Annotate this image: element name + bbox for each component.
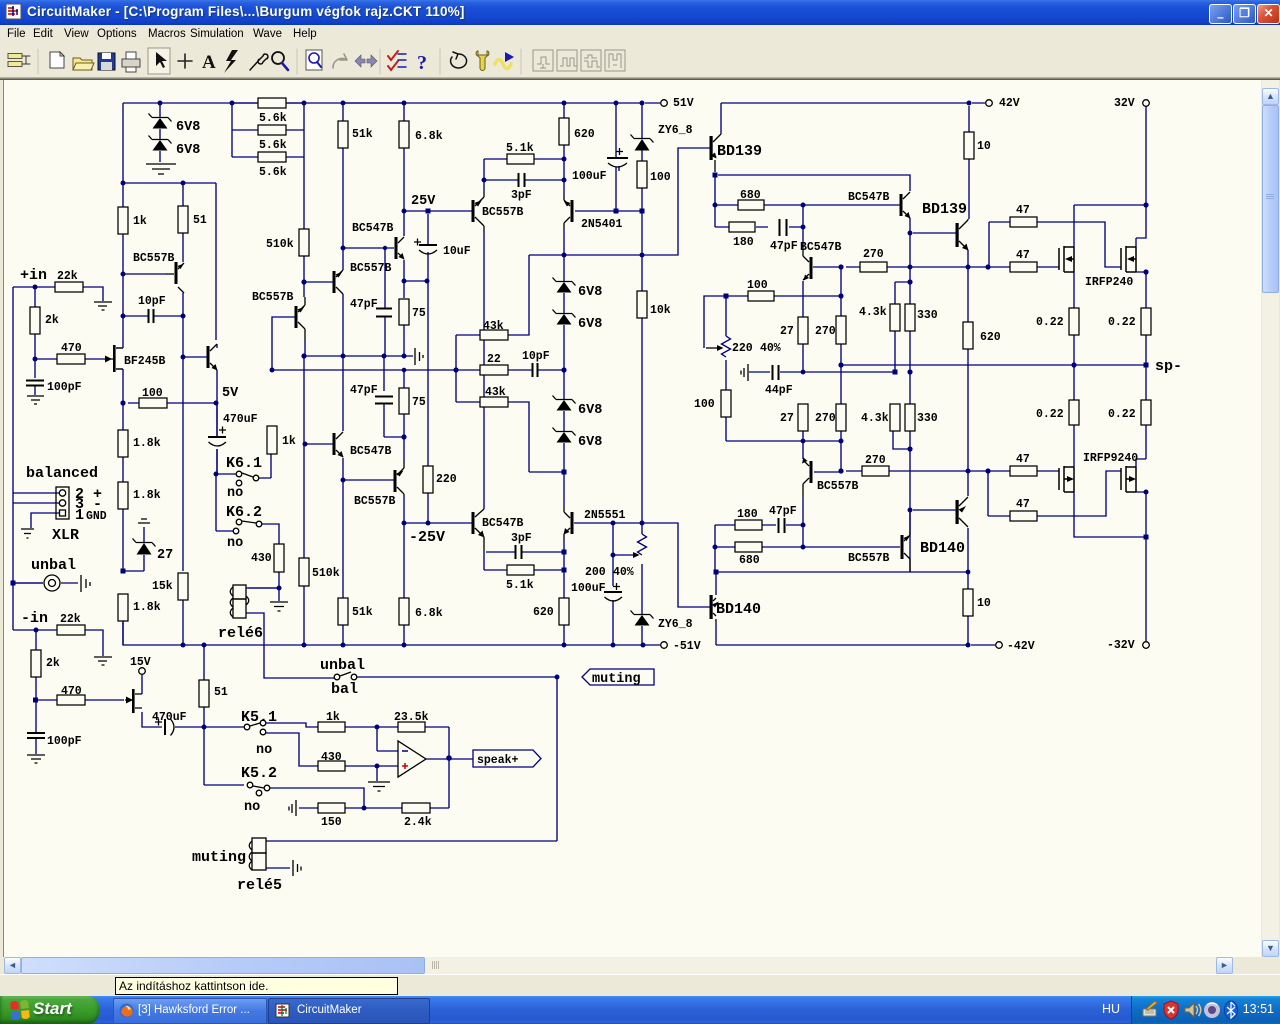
resistor 270 h2 xyxy=(862,466,889,476)
resistor 27 2 xyxy=(798,404,808,431)
zener ZY6_8 top xyxy=(631,135,654,143)
svg-text:27: 27 xyxy=(157,548,173,563)
capacitor 100uF 1 xyxy=(607,157,628,159)
svg-text:15V: 15V xyxy=(130,656,151,669)
svg-text:40%: 40% xyxy=(613,566,634,579)
transistor BC547B 1 (207,357) xyxy=(207,346,210,368)
svg-text:10: 10 xyxy=(977,597,991,610)
svg-text:BC557B: BC557B xyxy=(817,480,859,493)
capacitor 100uF 2 xyxy=(604,591,622,593)
resistor 15k xyxy=(178,573,188,600)
ground rele6 xyxy=(270,602,288,611)
resistor 270 v1 xyxy=(836,316,846,344)
svg-text:10pF: 10pF xyxy=(522,350,550,363)
svg-text:unbal: unbal xyxy=(320,657,365,674)
wire y267 bias row xyxy=(813,222,1121,267)
resistor 270 v2 xyxy=(836,404,846,431)
resistor 5.6k 3 xyxy=(258,152,286,162)
pot 200 40% xyxy=(638,534,647,555)
svg-text:no: no xyxy=(256,743,272,758)
svg-text:100pF: 100pF xyxy=(47,735,82,748)
resistor 0.22 a xyxy=(1069,308,1079,335)
terminal 42V xyxy=(986,100,993,107)
svg-text:510k: 510k xyxy=(312,567,340,580)
svg-text:5.6k: 5.6k xyxy=(259,112,287,125)
resistor 1.8k 1 xyxy=(118,430,128,457)
wire relay6 area xyxy=(246,588,557,868)
wire 1k K6.1 x272 xyxy=(271,426,273,454)
resistor 1k left xyxy=(118,207,128,234)
pot 220 40% xyxy=(722,336,731,357)
wire -in node x36 xyxy=(36,630,124,754)
resistor 0.22 c xyxy=(1069,400,1079,425)
svg-text:1.8k: 1.8k xyxy=(133,489,161,502)
resistor 470 bottom xyxy=(57,695,85,705)
wire 470uF1 column xyxy=(216,403,218,474)
svg-text:47pF: 47pF xyxy=(770,240,798,253)
transistor BC547B 2b (472,523) xyxy=(472,512,475,534)
wire x529 43k right xyxy=(508,255,564,472)
svg-text:6V8: 6V8 xyxy=(176,120,200,135)
transistor BC547B 2 (900,205) xyxy=(900,194,903,216)
resistor 2.4k xyxy=(402,803,430,813)
svg-text:BD140: BD140 xyxy=(920,540,965,557)
resistor 10 top xyxy=(964,132,974,159)
resistor 10k xyxy=(637,291,647,318)
svg-text:BC557B: BC557B xyxy=(482,206,524,219)
svg-text:unbal: unbal xyxy=(31,557,76,574)
wire opamp nodes xyxy=(377,727,473,808)
wire unbal jack xyxy=(15,582,78,584)
resistor 6.8k 2 xyxy=(399,598,409,625)
wire x484 LTP rail xyxy=(484,232,564,570)
resistor 180 2 xyxy=(735,520,762,530)
zener 6V8 c1 xyxy=(553,278,576,286)
terminal -51V xyxy=(661,642,668,649)
ground left of 44pF xyxy=(741,364,748,381)
svg-text:2N5401: 2N5401 xyxy=(581,218,623,231)
resistor 0.22 b xyxy=(1141,308,1151,335)
wire 5.6k column x232 xyxy=(232,103,304,157)
zener 6V8 c3 xyxy=(553,396,576,404)
mosfet IRFP240 1 xyxy=(1059,246,1074,272)
svg-text:270: 270 xyxy=(865,454,886,467)
svg-text:330: 330 xyxy=(917,309,938,322)
svg-text:-in: -in xyxy=(21,610,48,627)
transistor BC557B lower drv (810,472) xyxy=(810,461,813,483)
wire zener27 stem xyxy=(143,527,145,571)
resistor 620 2 xyxy=(559,598,569,625)
svg-text:XLR: XLR xyxy=(52,527,79,544)
ground right of unbal jack xyxy=(81,575,90,592)
svg-text:270: 270 xyxy=(815,325,836,338)
zener 6V8 b xyxy=(149,136,172,144)
svg-text:K6.1: K6.1 xyxy=(226,455,262,472)
resistor 1k op xyxy=(318,722,345,732)
svg-text:330: 330 xyxy=(917,412,938,425)
svg-text:muting: muting xyxy=(592,672,641,687)
svg-text:100uF: 100uF xyxy=(571,582,606,595)
ground under 22k bottom xyxy=(94,657,112,665)
wire BD140-2 base xyxy=(910,510,956,530)
wire A rail y356 xyxy=(304,355,413,357)
wire x803 27 column xyxy=(802,281,804,547)
svg-text:10uF: 10uF xyxy=(443,245,471,258)
resistor 430 op xyxy=(318,761,345,771)
resistor 680 2 xyxy=(735,542,762,552)
svg-text:270: 270 xyxy=(863,248,884,261)
resistor 2k top xyxy=(30,307,40,334)
svg-text:2.4k: 2.4k xyxy=(404,816,432,829)
resistor 51 relay xyxy=(199,680,209,707)
capacitor 10uF xyxy=(419,244,437,246)
svg-text:BC547B: BC547B xyxy=(482,517,524,530)
svg-text:51: 51 xyxy=(214,686,228,699)
wire y471 row xyxy=(814,471,1121,516)
mosfet IRFP9240 2 xyxy=(1121,466,1136,492)
zener ZY6_8 bottom xyxy=(631,611,654,619)
transistor 2N5551 xyxy=(571,512,574,534)
svg-text:680: 680 xyxy=(740,189,761,202)
svg-text:6V8: 6V8 xyxy=(578,435,602,450)
wire MOSFET lower attach xyxy=(1136,459,1146,492)
wire right top rail 42V xyxy=(721,102,985,104)
svg-text:?: ? xyxy=(417,52,427,74)
svg-text:BC557B: BC557B xyxy=(133,252,175,265)
transistor 2N5401 xyxy=(571,200,574,222)
transistor BC557B 3 (472,211) xyxy=(472,200,475,222)
svg-text:220: 220 xyxy=(436,473,457,486)
resistor 430 k6 xyxy=(274,544,284,572)
capacitor 3pF 2 xyxy=(516,545,522,559)
resistor 51k 2 xyxy=(338,598,348,625)
junction dots rails xyxy=(11,101,1149,811)
relay coil rele6 xyxy=(233,585,246,599)
wire MOSFET drains top xyxy=(1074,106,1146,365)
wire K5.2 out xyxy=(270,788,402,808)
svg-text:K5.2: K5.2 xyxy=(241,765,277,782)
svg-text:5.1k: 5.1k xyxy=(506,142,534,155)
wire BC547B1 collector x217 xyxy=(128,183,217,474)
svg-text:100: 100 xyxy=(142,387,163,400)
capacitor 100pF top xyxy=(26,381,44,386)
svg-text:BC557B: BC557B xyxy=(354,495,396,508)
terminal -42V xyxy=(996,642,1003,649)
zener 6V8 c2 xyxy=(553,310,576,318)
resistor 1.8k 2 xyxy=(118,482,128,509)
svg-text:0.22: 0.22 xyxy=(1108,316,1136,329)
resistor 47 g2 xyxy=(1010,262,1037,272)
svg-text:4.3k: 4.3k xyxy=(859,306,887,319)
svg-text:75: 75 xyxy=(412,396,426,409)
resistor 100 4 xyxy=(139,398,167,408)
svg-text:bal: bal xyxy=(331,681,358,698)
svg-text:680: 680 xyxy=(739,554,760,567)
svg-text:5.1k: 5.1k xyxy=(506,579,534,592)
svg-text:15k: 15k xyxy=(152,580,173,593)
svg-text:IRFP240: IRFP240 xyxy=(1085,276,1133,289)
resistor 100 3 xyxy=(748,291,774,301)
ground under opamp xyxy=(368,782,390,791)
svg-text:0.22: 0.22 xyxy=(1036,316,1064,329)
resistor 470 top xyxy=(57,354,85,364)
wire bottom rail left y645 xyxy=(123,621,660,785)
wire y255 to BD139 base xyxy=(529,148,710,255)
svg-text:ZY6_8: ZY6_8 xyxy=(658,124,693,137)
wire x305 BC547B2c base xyxy=(307,443,333,445)
flag speak+ xyxy=(473,750,541,767)
svg-text:1.8k: 1.8k xyxy=(133,437,161,450)
zener 6V8 a xyxy=(149,114,172,122)
svg-text:220: 220 xyxy=(732,342,753,355)
opamp xyxy=(398,741,426,777)
svg-text:47pF: 47pF xyxy=(350,298,378,311)
svg-text:470uF: 470uF xyxy=(152,711,187,724)
capacitor 47pF 2 xyxy=(780,219,787,236)
wire 6V8 left string xyxy=(159,103,161,162)
wire sp- rail y365 xyxy=(841,365,1146,641)
switch bal/unbal xyxy=(334,674,340,680)
svg-text:620: 620 xyxy=(574,128,595,141)
svg-text:-51V: -51V xyxy=(673,640,701,653)
relay contact K5.1 xyxy=(244,724,250,730)
svg-text:0.22: 0.22 xyxy=(1108,408,1136,421)
svg-text:43k: 43k xyxy=(485,386,506,399)
capacitor 100pF bottom xyxy=(27,733,45,738)
svg-text:10pF: 10pF xyxy=(138,295,166,308)
wire 2N5401 base y211 xyxy=(575,103,642,211)
svg-text:1.8k: 1.8k xyxy=(133,601,161,614)
transistor BC557B 4 (903,547) xyxy=(901,535,904,559)
svg-text:100: 100 xyxy=(694,398,715,411)
capacitor 47pF c1 xyxy=(376,309,392,317)
svg-text:150: 150 xyxy=(321,816,342,829)
svg-text:47: 47 xyxy=(1016,249,1030,262)
svg-text:620: 620 xyxy=(533,606,554,619)
resistor 180 1 xyxy=(729,222,755,232)
svg-text:75: 75 xyxy=(412,307,426,320)
wire x456 43k column xyxy=(456,335,480,402)
svg-text:430: 430 xyxy=(251,552,272,565)
svg-text:1: 1 xyxy=(75,507,84,524)
svg-text:47: 47 xyxy=(1016,498,1030,511)
svg-text:6V8: 6V8 xyxy=(578,285,602,300)
terminal 51V xyxy=(661,100,668,107)
resistor 6.8k xyxy=(399,121,409,148)
svg-text:47: 47 xyxy=(1016,204,1030,217)
terminal -32V xyxy=(1143,642,1150,649)
svg-text:muting: muting xyxy=(192,849,246,866)
wire XLR pin1 ground xyxy=(31,513,60,528)
wire y547 row xyxy=(715,525,968,645)
svg-text:42V: 42V xyxy=(999,97,1020,110)
svg-text:270: 270 xyxy=(815,412,836,425)
resistor 5.6k 2 xyxy=(258,125,286,135)
svg-text:470uF: 470uF xyxy=(223,413,258,426)
capacitor 470uF 2 xyxy=(164,719,166,735)
resistor 220 xyxy=(423,466,433,493)
svg-text:K5.1: K5.1 xyxy=(241,709,277,726)
svg-text:BC547B: BC547B xyxy=(848,191,890,204)
unbal RCA jack xyxy=(44,575,60,591)
svg-text:BF245B: BF245B xyxy=(124,355,166,368)
svg-text:1k: 1k xyxy=(133,215,147,228)
resistor 4.3k 1 xyxy=(890,304,900,331)
svg-text:47pF: 47pF xyxy=(350,384,378,397)
wire y175 to x910 xyxy=(718,175,956,233)
svg-text:200: 200 xyxy=(585,566,606,579)
svg-text:100: 100 xyxy=(747,279,768,292)
svg-text:BC557B: BC557B xyxy=(252,291,294,304)
svg-text:3pF: 3pF xyxy=(511,189,532,202)
svg-text:40%: 40% xyxy=(760,342,781,355)
transistor BC547B 3b (810,267) xyxy=(810,257,813,279)
resistor 22 xyxy=(480,365,508,375)
resistor 75 2 xyxy=(399,388,409,414)
wire x642 rail xyxy=(641,103,643,645)
svg-text:51: 51 xyxy=(193,214,207,227)
svg-text:no: no xyxy=(227,536,243,551)
svg-text:0.22: 0.22 xyxy=(1036,408,1064,421)
ground under 100pF bottom xyxy=(27,755,45,763)
svg-text:BC557B: BC557B xyxy=(848,552,890,565)
resistor 27 1 xyxy=(798,317,808,344)
relay contact K6.2 xyxy=(236,519,242,525)
svg-text:23.5k: 23.5k xyxy=(394,711,429,724)
wire B comp rail y370 xyxy=(272,369,564,371)
svg-text:BC547B: BC547B xyxy=(352,222,394,235)
flag muting xyxy=(582,669,654,685)
wire x841 270 column xyxy=(840,267,842,471)
wire x404 rail xyxy=(343,103,472,645)
transistor BC557B e (395,480) xyxy=(394,470,397,492)
resistor 43k 1 xyxy=(480,330,508,340)
wire BC557B2 base loop x272 xyxy=(272,317,296,370)
ground right of rele5 xyxy=(293,860,301,876)
transistor BD139 1 xyxy=(710,136,713,160)
svg-text:22k: 22k xyxy=(60,613,81,626)
wire y205 680 row xyxy=(715,177,900,250)
wire 470uF2 to K5.1 xyxy=(142,712,398,766)
svg-text:25V: 25V xyxy=(411,194,436,209)
svg-text:1k: 1k xyxy=(282,435,296,448)
svg-text:IRFP9240: IRFP9240 xyxy=(1083,452,1138,465)
svg-text:47pF: 47pF xyxy=(769,505,797,518)
wire x343 rail 51k xyxy=(343,103,394,645)
resistor 5.1k 1 xyxy=(507,154,534,164)
svg-text:51V: 51V xyxy=(673,97,694,110)
svg-text:2k: 2k xyxy=(45,314,59,327)
resistor 330 2 xyxy=(905,404,915,431)
ground under 6V8 pair xyxy=(146,164,176,174)
mosfet IRFP9240 1 xyxy=(1059,466,1074,492)
svg-text:5.6k: 5.6k xyxy=(259,139,287,152)
resistor 51 left xyxy=(178,206,188,233)
svg-text:47: 47 xyxy=(1016,453,1030,466)
transistor BD139 2 xyxy=(956,223,959,247)
zener 6V8 c4 xyxy=(553,428,576,436)
svg-text:43k: 43k xyxy=(483,320,504,333)
wire x384 caps column xyxy=(384,248,404,437)
resistor 22k bottom xyxy=(57,625,85,635)
wire y441 bias xyxy=(893,431,910,449)
svg-text:620: 620 xyxy=(980,331,1001,344)
svg-text:430: 430 xyxy=(321,751,342,764)
svg-text:470: 470 xyxy=(61,685,82,698)
resistor 5.1k 2 xyxy=(507,565,534,575)
wire x304 rail 510k xyxy=(304,103,333,645)
svg-text:6.8k: 6.8k xyxy=(415,130,443,143)
svg-text:BC557B: BC557B xyxy=(350,262,392,275)
transistor BD140 2 xyxy=(956,500,959,524)
relay coil rele5 xyxy=(252,838,266,853)
relay contact K5.2 xyxy=(247,782,253,788)
svg-text:5.6k: 5.6k xyxy=(259,166,287,179)
wire 5.1k1 3pF1 node xyxy=(484,103,564,194)
resistor 10 bottom xyxy=(963,589,973,616)
svg-text:27: 27 xyxy=(780,412,794,425)
svg-text:100pF: 100pF xyxy=(47,381,82,394)
svg-text:510k: 510k xyxy=(266,238,294,251)
svg-text:180: 180 xyxy=(737,508,758,521)
wire x428 minus25 rail xyxy=(404,214,428,523)
svg-text:A: A xyxy=(202,52,216,73)
XLR connector xyxy=(56,487,69,519)
svg-text:10: 10 xyxy=(977,140,991,153)
resistor 22k top xyxy=(55,282,83,292)
svg-text:44pF: 44pF xyxy=(765,384,793,397)
capacitor 470uF 1 xyxy=(208,436,226,438)
svg-text:no: no xyxy=(227,486,243,501)
wire +51V top rail xyxy=(123,102,660,104)
resistor 0.22 d xyxy=(1141,400,1151,425)
svg-text:5V: 5V xyxy=(222,386,239,401)
transistor BC557B 1 xyxy=(175,262,178,284)
svg-text:K6.2: K6.2 xyxy=(226,504,262,521)
resistor 620 right xyxy=(963,322,973,349)
svg-text:22k: 22k xyxy=(57,270,78,283)
terminal 15V xyxy=(139,668,146,675)
wire 2N5551 base y523 xyxy=(574,523,710,645)
transistor BC547B c (334,444) xyxy=(333,433,336,455)
svg-text:speak+: speak+ xyxy=(477,754,519,767)
svg-text:180: 180 xyxy=(733,236,754,249)
wire 100uF1 bottom xyxy=(618,166,620,171)
relay contact K6.1 xyxy=(236,471,242,477)
terminal 32V xyxy=(1143,100,1150,107)
resistor 100 zy xyxy=(637,161,647,188)
transistor BC557B aa (334,281) xyxy=(333,271,336,293)
resistor 43k 2 xyxy=(480,397,508,407)
svg-text:10k: 10k xyxy=(650,304,671,317)
resistor 680 1 xyxy=(738,200,764,210)
svg-text:4.3k: 4.3k xyxy=(861,412,889,425)
zener 27 with top bar xyxy=(138,519,150,523)
svg-text:51k: 51k xyxy=(352,128,373,141)
svg-text:6.8k: 6.8k xyxy=(415,607,443,620)
wire +in node x35 xyxy=(35,287,104,395)
svg-text:no: no xyxy=(244,800,260,815)
wire BD139-2 emitter x969 xyxy=(968,106,995,645)
ground right on A wire xyxy=(415,348,423,365)
resistor 5.6k 1 xyxy=(258,98,286,108)
resistor 620 1 xyxy=(559,118,569,145)
capacitor 10pF left xyxy=(149,309,154,323)
mosfet IRFP240 2 xyxy=(1121,246,1136,272)
resistor 510k 2 xyxy=(299,558,309,586)
ground under 22k top xyxy=(94,302,112,310)
capacitor 47pF c2 xyxy=(375,397,393,404)
